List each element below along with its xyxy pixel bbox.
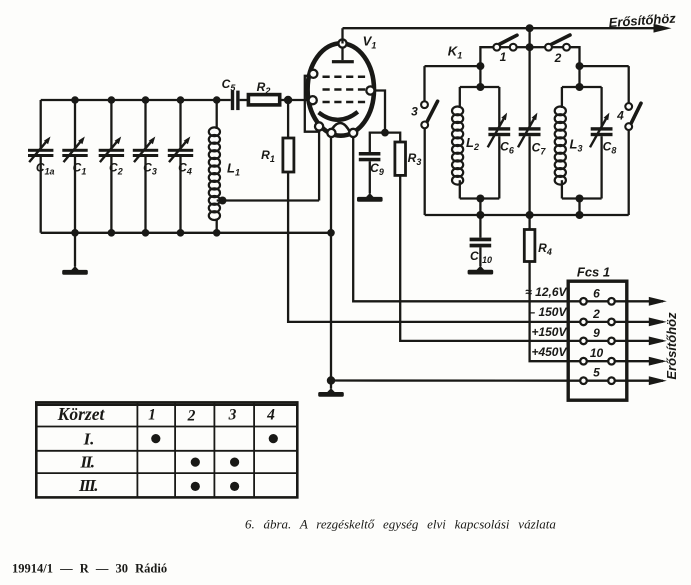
connector pin 6 link	[580, 300, 663, 302]
ground (C10)	[468, 266, 494, 275]
svg-text:2: 2	[187, 408, 196, 425]
capacitor C10	[470, 215, 492, 266]
node: tank 1 feed	[476, 62, 484, 70]
arrow: pin 2 to amplifier	[649, 318, 667, 327]
variable capacitor C7	[518, 113, 546, 215]
inductor L1	[209, 100, 240, 233]
arrow: pin 10 to amplifier	[649, 357, 667, 366]
ground (tuning bank)	[62, 233, 88, 275]
wire: tank 1 bottom	[460, 197, 500, 199]
node: riser joins pin 5 row	[327, 376, 335, 384]
node: grid junction (R2 / R1 / g1)	[284, 96, 292, 104]
wire: anode lead up to plate bus	[341, 28, 343, 43]
tube V1: grid 2 (dashed)	[323, 88, 367, 91]
wire: tank 1 top	[460, 86, 500, 88]
connector pin 5 link	[580, 380, 663, 382]
tube V1: cathode arc	[319, 112, 358, 120]
svg-text:Erősítőhöz: Erősítőhöz	[664, 312, 679, 380]
wire: K1 bottom bus	[425, 214, 629, 216]
tube V1: anode plate and lead	[332, 48, 354, 64]
pin 9 terminals	[580, 338, 615, 345]
node: tank 2 bottom centre	[576, 195, 584, 203]
tube V1: cathode terminal pin	[315, 122, 323, 130]
resistor R2	[248, 80, 288, 105]
svg-text:3: 3	[411, 105, 418, 119]
pin 2 terminals	[580, 319, 615, 326]
wire: tank 1 bottom stub	[479, 199, 481, 216]
ground (cathode riser)	[318, 381, 344, 397]
svg-text:+450V: +450V	[531, 345, 567, 359]
wire: R4 bottom down to +450V feed (pin 10 row)	[530, 262, 581, 362]
svg-text:5: 5	[593, 366, 600, 380]
wire: L1 tap to cathode riser	[217, 199, 319, 201]
pin 10 terminals	[580, 358, 615, 365]
tube V1: grid 1 (dashed)	[323, 101, 367, 104]
switch contact 2	[530, 35, 580, 66]
tube V1: upper grid terminal pin	[309, 70, 317, 78]
pin 5 terminals	[580, 377, 615, 384]
svg-text:1: 1	[500, 50, 507, 64]
variable capacitor C1	[62, 100, 87, 233]
svg-text:≈ 12,6V: ≈ 12,6V	[525, 285, 567, 299]
junction dots on top rail	[71, 96, 79, 104]
node: C10 junction	[476, 211, 484, 219]
node: tank 2 feed	[576, 62, 584, 70]
arrow: output to amplifier (top)	[654, 24, 672, 33]
tube V1: heater arc	[330, 123, 350, 132]
switch contact 1	[480, 35, 529, 66]
wire: junction to R3	[385, 133, 400, 142]
wire: riser from tap up to tube cathode pin	[318, 126, 320, 200]
wire: heater pin down to 12.6V feed (pin 6 row)	[353, 137, 580, 301]
node: C7/R4 junction	[526, 211, 534, 219]
resistor R3	[395, 142, 421, 175]
connector Fcs 1 body	[568, 281, 627, 400]
svg-text:– 150V: – 150V	[528, 305, 567, 319]
wire: grounded bottom rail of tuning bank	[41, 232, 331, 234]
svg-text:3: 3	[228, 407, 237, 424]
wire: strap joining grid pins (left bracket)	[305, 76, 319, 132]
arrow: pin 5 to amplifier	[649, 376, 667, 385]
svg-text:4: 4	[266, 407, 275, 424]
node: tank 2 top centre	[576, 83, 584, 91]
svg-text:6: 6	[593, 286, 600, 300]
svg-text:I.: I.	[83, 430, 95, 449]
switch contact 4	[616, 66, 641, 215]
arrow: pin 9 to amplifier	[649, 337, 667, 346]
wire: C7 / switch column from plate bus	[528, 28, 530, 127]
wire: pin 5 row	[331, 379, 580, 382]
svg-text:2: 2	[592, 307, 600, 321]
svg-text:II.: II.	[80, 453, 94, 472]
connector pin 9 link	[580, 340, 663, 342]
inductor L2	[452, 87, 479, 199]
svg-text:2: 2	[554, 51, 562, 65]
resistor R4	[524, 215, 552, 262]
junction dots on bottom rail	[71, 229, 79, 237]
table dot row I col 4	[269, 434, 278, 443]
tube V1: anode terminal pin	[338, 39, 346, 47]
tube V1: heater pin a	[327, 129, 335, 137]
inductor L3	[555, 87, 583, 199]
wire: tank 2 bottom stub	[578, 199, 580, 216]
svg-text:1: 1	[148, 407, 156, 424]
pin 6 terminals	[580, 298, 615, 305]
wire: grid-side top rail of tuning bank	[41, 99, 231, 101]
wire: right K1 feed	[580, 65, 629, 67]
svg-text:10: 10	[590, 346, 604, 360]
node: tank 2 stub junction	[576, 211, 584, 219]
vacuum tube V1: envelope	[308, 43, 374, 135]
table dot row III col 2	[191, 482, 200, 491]
variable capacitor C6	[488, 87, 515, 199]
wire: junction to C9	[370, 133, 385, 152]
svg-text:4: 4	[616, 109, 624, 123]
tube V1: screen terminal pin	[366, 86, 374, 94]
table dot row II col 2	[191, 458, 200, 467]
wire: grid junction to tube grid pin	[288, 99, 310, 101]
svg-text:Fcs 1: Fcs 1	[577, 265, 610, 280]
capacitor C5	[222, 77, 249, 110]
svg-text:9: 9	[593, 326, 600, 340]
node: L1 cathode tap	[219, 197, 227, 205]
table dot row II col 3	[230, 458, 239, 467]
band selection table frame	[36, 402, 297, 497]
wire: tank 2 feed stub	[578, 66, 580, 87]
svg-text:+150V: +150V	[531, 325, 567, 339]
wire: cathode pin down to ground and pin 5 row	[330, 137, 332, 381]
node: screen bypass junction	[381, 129, 389, 137]
wire: left K1 feed	[425, 65, 481, 67]
node: tank 1 top centre	[476, 83, 484, 91]
tube V1: heater pin b	[349, 129, 357, 137]
table dot row I col 1	[151, 434, 160, 443]
switch contact 3	[411, 66, 437, 215]
wire: R3 bottom down to +150V feed (pin 9 row)	[400, 175, 580, 341]
variable capacitor C4	[168, 100, 193, 233]
variable capacitor C2	[99, 100, 124, 233]
table dot row III col 3	[230, 482, 239, 491]
variable capacitor C1a	[28, 100, 55, 233]
resistor R1	[261, 100, 294, 172]
node: tank 1 bottom centre	[476, 195, 484, 203]
node: plate bus / C7 junction	[526, 24, 534, 32]
wire: tank 1 feed stub	[479, 66, 481, 87]
wire: R1 bottom down to -150V feed (pin 2 row)	[288, 172, 580, 322]
variable capacitor C8	[590, 87, 616, 199]
tube V1: control grid terminal pin	[309, 96, 317, 104]
connector pin 2 link	[580, 321, 663, 323]
wire: screen pin to C9/R3 junction	[375, 91, 386, 133]
tube V1: grid 3 (dashed)	[323, 76, 367, 79]
variable capacitor C3	[133, 100, 158, 233]
wire: tank 2 top	[562, 86, 602, 88]
wire: tank 2 bottom	[562, 197, 602, 199]
svg-text:6. ábra. A rezgéskeltő egység: 6. ábra. A rezgéskeltő egység elvi kapcs…	[245, 517, 556, 532]
connector pin 10 link	[580, 360, 663, 362]
svg-text:Körzet: Körzet	[57, 404, 106, 424]
capacitor C9	[359, 152, 384, 194]
wire: plate output bus to amplifier	[343, 27, 656, 29]
ground (C9)	[357, 193, 383, 202]
svg-text:III.: III.	[78, 476, 97, 495]
node: switch row centre junction	[526, 43, 534, 51]
arrow: pin 6 to amplifier	[649, 297, 667, 306]
svg-text:19914/1 — R — 30 Rádió: 19914/1 — R — 30 Rádió	[12, 562, 167, 576]
